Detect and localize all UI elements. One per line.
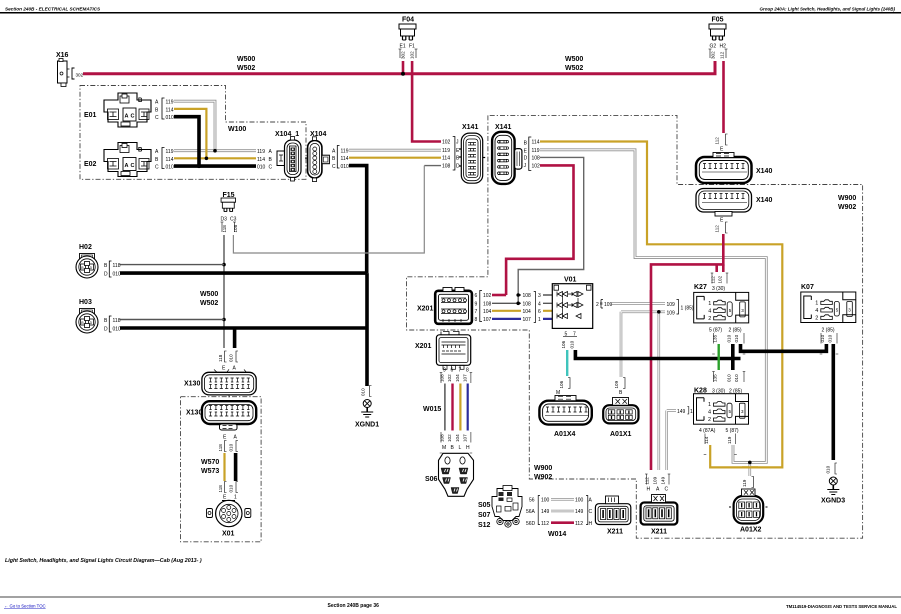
svg-text:8: 8: [475, 317, 478, 323]
svg-text:W902: W902: [534, 474, 552, 481]
svg-text:C: C: [155, 165, 159, 171]
svg-text:109: 109: [604, 302, 613, 308]
svg-text:E1: E1: [400, 44, 406, 50]
svg-text:109: 109: [614, 380, 619, 388]
svg-text:100: 100: [541, 498, 550, 504]
svg-text:1: 1: [690, 409, 693, 415]
svg-text:010: 010: [166, 115, 175, 121]
svg-text:6: 6: [451, 368, 454, 374]
svg-text:119: 119: [341, 149, 349, 155]
svg-text:E02: E02: [84, 161, 97, 168]
svg-text:118: 118: [218, 354, 223, 362]
svg-text:← Go to Section TOC: ← Go to Section TOC: [4, 604, 46, 609]
svg-text:106: 106: [561, 340, 566, 348]
svg-text:118: 118: [218, 444, 223, 452]
svg-text:XGND3: XGND3: [821, 498, 845, 505]
svg-text:4: 4: [538, 302, 541, 308]
svg-text:C: C: [589, 509, 593, 515]
svg-text:119: 119: [166, 100, 174, 106]
svg-text:106: 106: [559, 380, 564, 388]
svg-text:G2: G2: [710, 44, 717, 50]
svg-text:C3: C3: [230, 217, 237, 223]
svg-text:108: 108: [440, 374, 445, 382]
svg-text:W502: W502: [200, 300, 218, 307]
svg-text:X16: X16: [56, 52, 69, 59]
svg-text:X141: X141: [495, 124, 511, 131]
svg-text:C: C: [332, 164, 336, 170]
svg-text:1: 1: [538, 317, 541, 323]
svg-text:C: C: [269, 165, 273, 171]
svg-text:V01: V01: [564, 277, 577, 284]
svg-text:119: 119: [442, 148, 450, 154]
svg-text:D: D: [104, 326, 108, 332]
svg-text:119: 119: [742, 479, 747, 487]
svg-text:010: 010: [113, 326, 122, 332]
svg-text:L: L: [459, 445, 462, 451]
svg-text:H03: H03: [79, 299, 92, 306]
svg-text:109: 109: [667, 310, 676, 316]
svg-text:108: 108: [233, 224, 238, 232]
svg-text:X211: X211: [607, 529, 623, 536]
svg-text:118: 118: [218, 485, 223, 493]
svg-text:X130: X130: [184, 381, 200, 388]
svg-text:A01X1: A01X1: [610, 431, 632, 438]
svg-text:K27: K27: [694, 284, 707, 291]
svg-text:107: 107: [523, 317, 532, 323]
svg-text:010: 010: [166, 165, 175, 171]
svg-text:4 (87A): 4 (87A): [699, 428, 716, 434]
svg-text:010: 010: [257, 165, 266, 171]
svg-text:112: 112: [715, 225, 720, 233]
svg-text:102: 102: [447, 434, 452, 442]
svg-text:7: 7: [475, 309, 478, 315]
svg-text:S06: S06: [425, 476, 438, 483]
svg-text:X201: X201: [415, 343, 431, 350]
svg-text:W902: W902: [838, 204, 856, 211]
svg-text:104: 104: [523, 309, 532, 315]
svg-text:C: C: [155, 115, 159, 121]
svg-text:W500: W500: [565, 56, 583, 63]
svg-text:5 (87): 5 (87): [709, 328, 722, 334]
svg-text:W502: W502: [565, 65, 583, 72]
svg-text:H: H: [589, 521, 593, 527]
svg-text:S05: S05: [478, 502, 491, 509]
svg-text:W570: W570: [201, 459, 219, 466]
svg-text:302: 302: [711, 51, 716, 59]
svg-text:149: 149: [541, 509, 550, 515]
svg-text:010: 010: [827, 334, 832, 342]
svg-text:109: 109: [667, 302, 676, 308]
svg-text:112: 112: [720, 51, 725, 59]
svg-text:XGND1: XGND1: [355, 422, 379, 429]
svg-text:X140: X140: [756, 168, 772, 175]
svg-text:A01X4: A01X4: [554, 431, 576, 438]
svg-text:X104_1: X104_1: [275, 131, 299, 138]
svg-text:56: 56: [529, 498, 535, 504]
svg-text:010: 010: [229, 443, 234, 451]
svg-text:W500: W500: [200, 291, 218, 298]
svg-text:A01X2: A01X2: [740, 527, 762, 534]
svg-text:K07: K07: [801, 284, 814, 291]
svg-text:3 (30): 3 (30): [712, 286, 725, 292]
svg-text:S12: S12: [478, 522, 491, 529]
svg-text:112: 112: [645, 477, 650, 485]
svg-text:149: 149: [575, 509, 584, 515]
svg-text:X130: X130: [186, 410, 202, 417]
svg-text:W015: W015: [423, 406, 441, 413]
svg-text:56D: 56D: [526, 521, 536, 527]
svg-text:1: 1: [234, 495, 237, 501]
svg-text:6: 6: [475, 293, 478, 299]
svg-text:56A: 56A: [526, 509, 536, 515]
svg-text:119: 119: [166, 149, 174, 155]
svg-text:8: 8: [466, 368, 469, 374]
svg-text:F05: F05: [712, 17, 724, 24]
svg-text:Section 240B page 36: Section 240B page 36: [328, 603, 380, 609]
svg-text:010: 010: [570, 340, 575, 348]
svg-text:W502: W502: [237, 65, 255, 72]
svg-text:102: 102: [442, 140, 451, 146]
svg-text:D3: D3: [221, 217, 228, 223]
svg-text:114: 114: [442, 156, 450, 162]
svg-text:X211: X211: [651, 529, 667, 536]
svg-text:H: H: [466, 445, 470, 451]
svg-text:M: M: [442, 445, 446, 451]
svg-text:114: 114: [341, 156, 349, 162]
svg-text:W900: W900: [534, 465, 552, 472]
svg-text:H: H: [647, 487, 651, 493]
svg-text:W014: W014: [548, 531, 566, 538]
svg-text:102: 102: [718, 275, 723, 283]
svg-text:114: 114: [166, 107, 174, 113]
svg-text:109: 109: [653, 476, 658, 484]
svg-text:010: 010: [229, 484, 234, 492]
svg-text:108: 108: [532, 156, 541, 162]
svg-text:010: 010: [341, 164, 350, 170]
svg-text:X01: X01: [222, 531, 235, 538]
svg-text:149: 149: [661, 476, 666, 484]
svg-text:302: 302: [76, 72, 84, 77]
svg-text:118: 118: [113, 318, 121, 324]
svg-text:149: 149: [677, 409, 686, 415]
svg-text:112: 112: [541, 521, 549, 527]
svg-text:104: 104: [483, 309, 492, 315]
svg-text:TM114519-DIAGNOSIS AND TESTS S: TM114519-DIAGNOSIS AND TESTS SERVICE MAN…: [786, 604, 897, 609]
svg-text:5 (87): 5 (87): [726, 428, 739, 434]
svg-text:119: 119: [727, 436, 732, 444]
svg-text:X141: X141: [462, 124, 478, 131]
svg-text:010: 010: [727, 334, 732, 342]
svg-text:010: 010: [113, 271, 122, 277]
svg-text:010: 010: [734, 334, 739, 342]
svg-text:W100: W100: [228, 126, 246, 133]
svg-text:102: 102: [410, 51, 415, 59]
svg-text:F1: F1: [409, 44, 415, 50]
svg-text:2: 2: [596, 302, 599, 308]
svg-text:X140: X140: [756, 197, 772, 204]
svg-text:302: 302: [401, 51, 406, 59]
svg-text:010: 010: [826, 465, 831, 473]
svg-text:W573: W573: [201, 468, 219, 475]
svg-text:X201: X201: [417, 306, 433, 313]
svg-text:1 (85): 1 (85): [681, 306, 694, 312]
svg-text:Light Switch, Headlights, and: Light Switch, Headlights, and Signal Lig…: [5, 558, 202, 564]
svg-text:100: 100: [575, 498, 584, 504]
svg-text:010: 010: [361, 388, 366, 396]
svg-text:102: 102: [532, 164, 541, 170]
svg-text:112: 112: [575, 521, 583, 527]
svg-text:D: D: [456, 164, 460, 170]
svg-text:D: D: [104, 271, 108, 277]
svg-text:Section 240B - ELECTRICAL SCHE: Section 240B - ELECTRICAL SCHEMATICS: [5, 7, 101, 12]
svg-text:H2: H2: [720, 44, 727, 50]
svg-text:112: 112: [715, 137, 720, 145]
svg-text:7: 7: [459, 368, 462, 374]
svg-text:010: 010: [229, 354, 234, 362]
svg-text:114: 114: [166, 157, 174, 163]
svg-text:119: 119: [257, 149, 265, 155]
svg-text:3: 3: [538, 293, 541, 299]
svg-text:2 (85): 2 (85): [729, 328, 742, 334]
svg-text:010: 010: [727, 374, 732, 382]
svg-text:Group 240A: Light Switch, Head: Group 240A: Light Switch, Headlights, an…: [759, 7, 895, 12]
svg-text:118: 118: [113, 263, 121, 269]
svg-text:9: 9: [443, 368, 446, 374]
svg-text:107: 107: [462, 374, 467, 382]
svg-text:104: 104: [455, 374, 460, 382]
svg-text:9: 9: [475, 302, 478, 308]
svg-text:108: 108: [440, 434, 445, 442]
svg-text:114: 114: [532, 140, 540, 146]
svg-text:108: 108: [523, 302, 532, 308]
svg-text:102: 102: [447, 374, 452, 382]
svg-text:108: 108: [523, 293, 532, 299]
svg-text:F04: F04: [402, 17, 414, 24]
svg-text:W500: W500: [237, 56, 255, 63]
svg-text:C: C: [665, 487, 669, 493]
svg-text:010: 010: [734, 374, 739, 382]
svg-text:108: 108: [483, 302, 492, 308]
svg-text:2 (85): 2 (85): [822, 328, 835, 334]
svg-text:107: 107: [462, 434, 467, 442]
svg-text:E01: E01: [84, 112, 97, 119]
svg-text:119: 119: [532, 148, 540, 154]
svg-text:W900: W900: [838, 195, 856, 202]
svg-text:108: 108: [442, 164, 451, 170]
svg-text:102: 102: [483, 293, 492, 299]
svg-text:104: 104: [455, 434, 460, 442]
svg-text:H02: H02: [79, 244, 92, 251]
svg-text:107: 107: [483, 317, 492, 323]
svg-text:118: 118: [222, 225, 227, 233]
svg-text:114: 114: [257, 157, 265, 163]
svg-text:112: 112: [711, 276, 716, 284]
svg-text:6: 6: [538, 309, 541, 315]
svg-text:S07: S07: [478, 512, 491, 519]
svg-text:D: D: [524, 156, 528, 162]
